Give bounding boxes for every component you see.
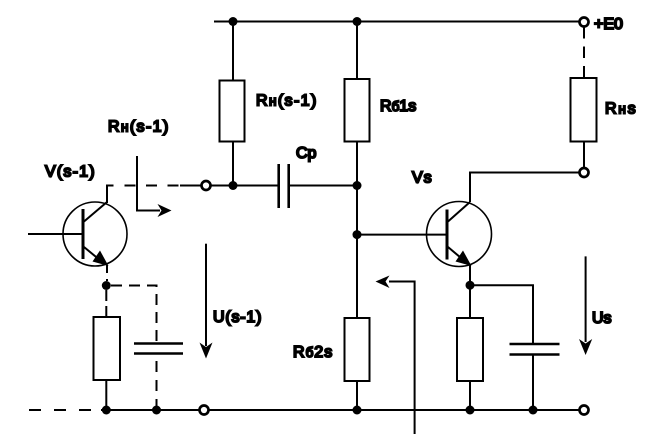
wire (dashed) bottom rail left (29, 409, 101, 411)
wire (dashed) junction to bypass capacitor branch (111, 286, 157, 344)
wire (dashed) input net (125, 185, 179, 187)
resistor Rб2s (345, 318, 370, 381)
resistor Rб1s (345, 79, 370, 142)
wire bypass capacitor bottom lead (532, 355, 534, 410)
wire (dashed) +E0 to Rнs (583, 27, 585, 78)
node junction rail / right emitter resistor (466, 406, 475, 415)
wire Vs base lead (357, 234, 447, 236)
capacitor Cp (279, 164, 289, 208)
transistor Vs (427, 202, 492, 267)
capacitor emitter bypass (previous stage) (134, 344, 183, 354)
wire V(s-1) collector stub to input net (107, 186, 114, 204)
signal direction arrow (input crossing tick) (137, 156, 172, 217)
node bottom input terminal (open) (200, 406, 209, 415)
node junction rail / left emitter resistor (102, 406, 111, 415)
node junction Rн(s-1) lead / input wire (229, 181, 238, 190)
wire (dashed) junction to emitter resistor (105, 290, 107, 317)
wire emitter resistor bottom lead (105, 380, 107, 410)
node junction rail / left bypass cap (152, 406, 161, 415)
wire Cp right plate to base node of Vs divider (290, 185, 357, 187)
node junction top rail / Rб1s (353, 17, 362, 26)
node output terminal below Rнs (open) (580, 168, 589, 177)
wire (dashed) V(s-1) emitter to junction (106, 265, 108, 281)
wire Rн(s-1) top lead (232, 22, 234, 82)
svg-text:Rб1s: Rб1s (380, 98, 416, 115)
node junction Cp wire / divider line (353, 181, 362, 190)
svg-text:+E0: +E0 (594, 16, 623, 33)
wire Rб2s bottom lead (356, 381, 358, 410)
svg-text:Rн(s-1): Rн(s-1) (108, 119, 170, 136)
node bottom output terminal (open) (580, 406, 589, 415)
capacitor emitter bypass (stage s) (510, 344, 560, 355)
svg-text:V(s-1): V(s-1) (45, 164, 96, 181)
wire top supply rail (214, 21, 581, 23)
svg-text:Vs: Vs (412, 170, 433, 187)
wire Vs emitter to junction (469, 265, 471, 285)
node junction rail / Rб2s (353, 406, 362, 415)
wire Rнs bottom lead (583, 142, 585, 169)
svg-text:Rн(s-1): Rн(s-1) (256, 93, 318, 110)
wire terminal to Cp left plate (211, 185, 279, 187)
svg-text:Cp: Cp (296, 145, 317, 162)
wire Vs collector to output terminal (470, 173, 580, 203)
node junction divider / Vs base (353, 230, 362, 239)
svg-text:Us: Us (592, 310, 612, 327)
node junction Vs emitter (466, 281, 475, 290)
feedback arrow (pointing left into stage) (376, 276, 415, 435)
node input terminal (open) (202, 181, 211, 190)
wire input to terminal node (180, 185, 202, 187)
resistor emitter R (previous stage) (94, 317, 121, 380)
wire Rн(s-1) bottom lead (232, 142, 234, 186)
transistor V(s-1) (28, 202, 127, 266)
wire bottom rail right (209, 409, 580, 411)
wire junction to bypass capacitor branch (470, 285, 533, 343)
svg-text:Rб2s: Rб2s (293, 344, 333, 361)
resistor Rнs (571, 78, 597, 142)
wire Rб1s bottom lead down through base node to Rб2s (356, 142, 358, 319)
resistor Rн(s-1) (collector load, previous stage) (220, 81, 245, 142)
wire bottom rail (101, 409, 200, 411)
svg-text:Rнs: Rнs (605, 101, 637, 118)
arrow U(s-1) output voltage of previous stage (200, 244, 213, 359)
wire emitter resistor bottom lead (469, 381, 471, 410)
wire (dashed) bypass capacitor bottom lead (156, 355, 158, 411)
wire junction to emitter resistor Rs (469, 285, 471, 318)
resistor emitter R (stage s) (457, 318, 483, 381)
wire Rб1s top lead (356, 22, 358, 80)
node junction rail / right bypass cap (529, 406, 538, 415)
node junction V(s-1) emitter (102, 281, 111, 290)
node +E0 terminal (580, 18, 589, 27)
arrow Us output voltage (579, 256, 592, 355)
svg-text:U(s-1): U(s-1) (213, 309, 262, 326)
node junction top rail / Rн(s-1) (229, 17, 238, 26)
